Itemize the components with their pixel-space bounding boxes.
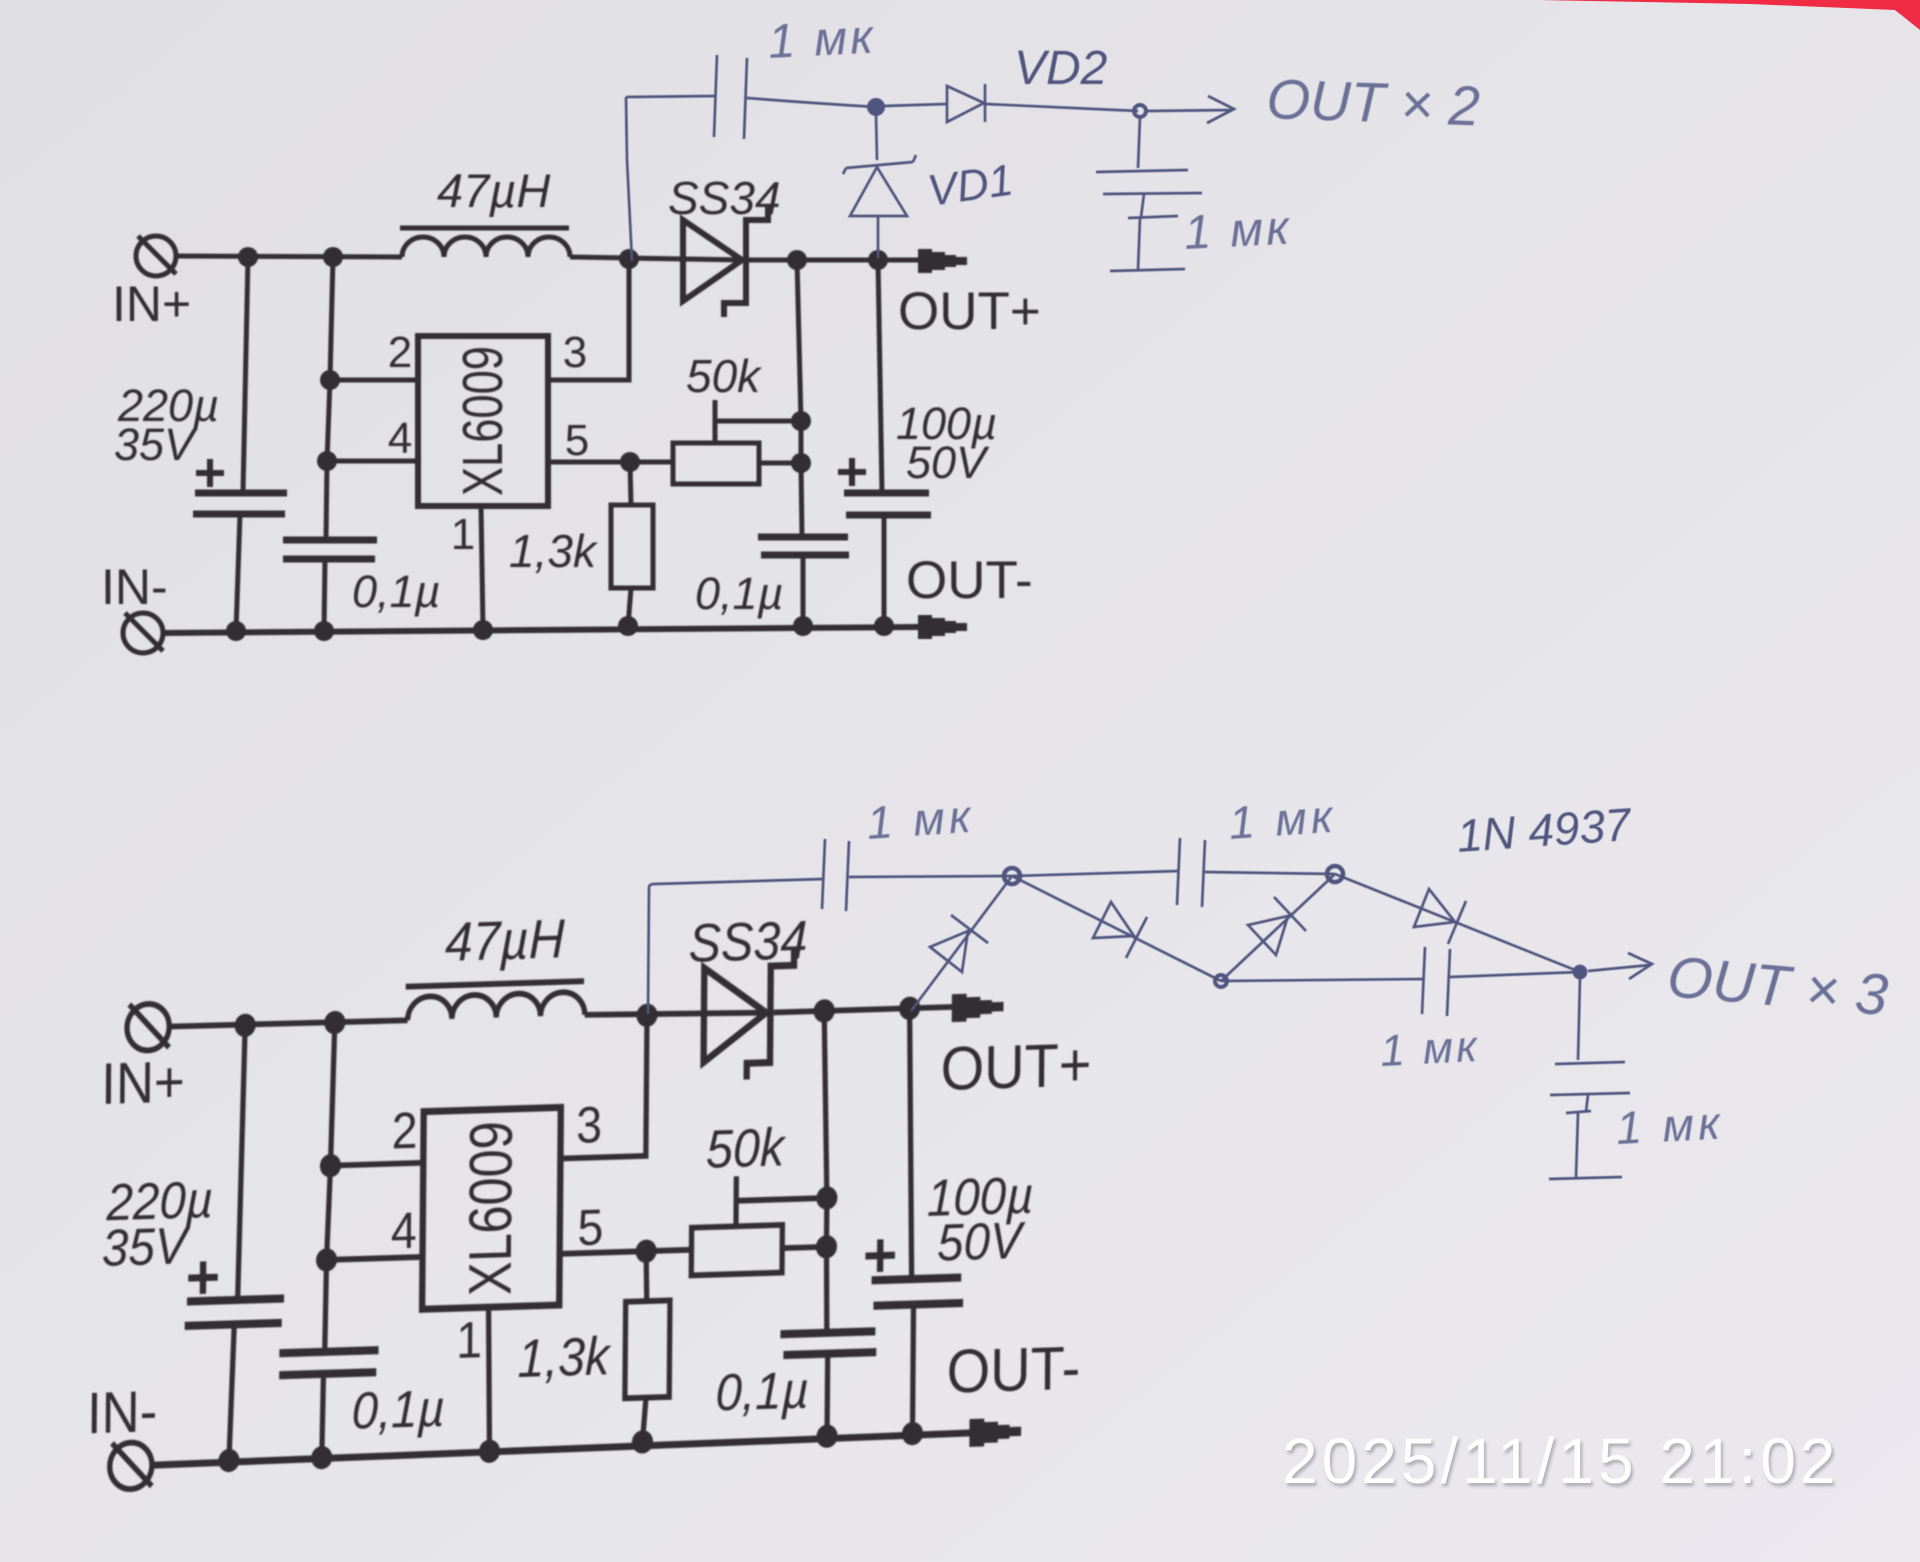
node pin5 junction (circuit 2): [635, 1239, 656, 1263]
arrow hand OUT x2: [1146, 96, 1234, 123]
node F OUT x3 (circuit 2): [1574, 966, 1586, 978]
red table edge top-right: [1538, 0, 1920, 30]
svg-text:1: 1: [451, 510, 475, 559]
node bottom rail 2 (circuit 1): [314, 621, 334, 641]
pin 4 wire (circuit 1): [327, 459, 418, 464]
resistor 1,3k (circuit 2): [625, 1300, 670, 1398]
wire diode cathode to OUT+ arrow (circuit 2): [774, 1007, 954, 1013]
wire inductor to diode anode (circuit 2): [585, 1009, 770, 1018]
node pin5 junction (circuit 1): [620, 452, 640, 472]
capacitor hand C-1мк filter B (circuit 2): [1549, 1095, 1622, 1179]
wire hand: node B down to C filter (circuit 1): [1138, 117, 1140, 168]
svg-text:1 мк: 1 мк: [1227, 790, 1338, 849]
printed circuit 2 (bottom): [86, 893, 1092, 1491]
svg-text:VD2: VD2: [1014, 42, 1107, 95]
node pin2 junction (circuit 1): [320, 370, 340, 390]
wire hand: C stage2 to node E (circuit 2): [1205, 872, 1335, 874]
svg-text:1 мк: 1 мк: [865, 790, 976, 849]
wire feedback rail node4 down to C-0,1µ out (circuit 1): [797, 260, 802, 537]
svg-text:2: 2: [391, 1103, 417, 1160]
svg-text:IN-: IN-: [87, 1379, 158, 1446]
svg-text:IN-: IN-: [101, 559, 168, 615]
inductor L 47µH (circuit 2): [405, 981, 585, 1020]
resistor 1,3k (circuit 1): [611, 505, 653, 588]
pin 2 wire (circuit 2): [330, 1163, 423, 1166]
pot wiper stub (circuit 2): [733, 1176, 738, 1226]
diode hand VD4 node C to node D: [1012, 876, 1221, 981]
svg-text:0,1µ: 0,1µ: [715, 1361, 809, 1423]
pin 3 wire (circuit 1): [548, 259, 629, 380]
wire C-0,1µ to bottom rail (circuit 2): [322, 1374, 324, 1458]
node bottom rail 5 (circuit 2): [816, 1424, 837, 1448]
node wiper junction (circuit 2): [816, 1186, 837, 1210]
wire R-1,3k to bottom rail (circuit 2): [642, 1398, 646, 1442]
resistor 50k potentiometer (circuit 2): [691, 1225, 782, 1275]
pot wiper stub (circuit 1): [713, 400, 718, 443]
wire C-100µ to bottom rail (circuit 2): [912, 1305, 913, 1434]
wire C-0,1µ out to bottom rail (circuit 1): [801, 555, 806, 626]
svg-text:OUT+: OUT+: [898, 282, 1041, 341]
wire node1 down to C-220µ (circuit 1): [243, 257, 248, 493]
node pin4 junction (circuit 1): [317, 451, 337, 471]
node top rail 2 (circuit 2): [324, 1011, 345, 1035]
svg-text:50V: 50V: [937, 1211, 1026, 1272]
wire top rail IN+ to inductor (circuit 1): [175, 256, 402, 257]
node pin2 junction (circuit 2): [320, 1154, 341, 1178]
inductor L 47µH (circuit 1): [400, 228, 570, 257]
wire node5 down to C-100µ (circuit 2): [907, 1008, 913, 1279]
node top rail 1 (circuit 1): [238, 247, 258, 267]
wire node1 down to C-220µ (circuit 2): [238, 1025, 246, 1300]
svg-text:IN+: IN+: [112, 276, 191, 332]
wire C-0,1µ out to bottom rail (circuit 2): [825, 1354, 831, 1437]
capacitor hand C-1мк filter A (circuit 1): [1096, 170, 1202, 194]
handwritten annotations circuit 2: [648, 790, 1890, 1179]
capacitor 220µ 35V (circuit 1): [193, 493, 287, 514]
svg-text:XL6009: XL6009: [451, 346, 515, 496]
capacitor 0,1µ input (circuit 1): [283, 540, 377, 559]
wire pin5 to R-50k (circuit 1): [630, 460, 673, 465]
terminal IN- (circuit 1): [123, 613, 163, 653]
svg-text:1: 1: [456, 1312, 482, 1369]
arrow OUT+ (circuit 2): [952, 993, 1004, 1022]
wire hand: C-1мк to node A (circuit 1): [747, 98, 876, 107]
plus sign of 100µ (circuit 2): [865, 1239, 895, 1272]
svg-text:0,1µ: 0,1µ: [351, 1379, 445, 1441]
node bottom rail 3 (circuit 2): [479, 1439, 500, 1463]
svg-text:4: 4: [391, 1203, 417, 1260]
wire hand: C stage1 to node C (circuit 2): [849, 876, 1012, 877]
node C (circuit 2): [1004, 868, 1020, 884]
node top rail 2 (circuit 1): [323, 247, 343, 267]
svg-text:0,1µ: 0,1µ: [695, 568, 783, 619]
svg-text:2025/11/15 21:02: 2025/11/15 21:02: [1282, 1425, 1840, 1497]
terminal IN+ (circuit 1): [136, 236, 176, 276]
svg-text:47µH: 47µH: [445, 909, 565, 973]
node top rail 1 (circuit 2): [235, 1013, 256, 1037]
node B (circuit 1): [1134, 105, 1146, 117]
svg-text:IN+: IN+: [101, 1049, 185, 1117]
svg-text:5: 5: [565, 416, 589, 465]
plus sign of 220µ (circuit 2): [188, 1261, 218, 1294]
node R50k-right junction (circuit 1): [791, 453, 811, 473]
capacitor 0,1µ output (circuit 1): [758, 537, 849, 555]
resistor 50k potentiometer (circuit 1): [673, 443, 759, 484]
wire top rail IN+ to inductor (circuit 2): [168, 1019, 407, 1028]
node bottom rail 6 (circuit 1): [874, 616, 894, 636]
wire C-220µ to bottom rail (circuit 1): [236, 514, 240, 631]
wire node5 down to C-100µ (circuit 1): [878, 260, 882, 493]
wire inductor to diode anode (circuit 1): [570, 257, 745, 260]
terminal IN+ (circuit 2): [127, 1003, 170, 1051]
wire hand: VD2 to node B (circuit 1): [986, 104, 1138, 111]
wire hand: node D to C stage3 (circuit 2): [1221, 979, 1424, 981]
wire hand: tap from switch node up (circuit 1): [626, 97, 632, 261]
diode VD2: [883, 104, 947, 106]
pin 2 wire (circuit 1): [330, 378, 418, 383]
pot wiper arm wire (circuit 2): [736, 1198, 827, 1201]
wire hand: C stage3 to node F (circuit 2): [1450, 972, 1580, 977]
diode hand VD3 from OUT+ to node C: [911, 876, 1012, 1011]
pin 1 wire (circuit 1): [481, 506, 483, 630]
wire hand: node C to C stage2 (circuit 2): [1012, 871, 1179, 876]
wire node2 down via pins 2,4 to C-0,1µ (circuit 1): [326, 257, 333, 540]
pin 5 wire (circuit 1): [548, 460, 630, 465]
svg-text:SS34: SS34: [688, 910, 807, 973]
node bottom rail 6 (circuit 2): [902, 1422, 923, 1446]
wire C-220µ to bottom rail (circuit 2): [229, 1324, 234, 1460]
op-amp/IC U XL6009 (circuit 1): [418, 336, 548, 506]
wire pin5 to R-50k (circuit 2): [646, 1250, 691, 1251]
arrow OUT+ (circuit 1): [918, 249, 967, 273]
svg-text:OUT × 2: OUT × 2: [1266, 67, 1481, 137]
node bottom rail 4 (circuit 2): [632, 1430, 653, 1454]
node top rail 3 (circuit 2): [636, 1003, 657, 1027]
capacitor 0,1µ output (circuit 2): [780, 1331, 876, 1355]
svg-text:35V: 35V: [114, 419, 198, 470]
handwritten annotations circuit 1: [626, 10, 1481, 271]
node top rail 5 (circuit 2): [899, 996, 920, 1020]
pot wiper arm wire (circuit 1): [715, 419, 801, 424]
node bottom rail 4 (circuit 1): [618, 616, 638, 636]
capacitor 220µ 35V (circuit 2): [185, 1298, 284, 1325]
svg-text:35V: 35V: [102, 1216, 191, 1277]
node R50k-right junction (circuit 2): [816, 1235, 837, 1259]
pin 4 wire (circuit 2): [327, 1257, 423, 1260]
plus sign of 100µ (circuit 1): [838, 458, 866, 486]
capacitor hand C-1мк coupling (circuit 1): [714, 55, 747, 139]
svg-text:1 мк: 1 мк: [1379, 1022, 1481, 1076]
node pin4 junction (circuit 2): [316, 1248, 337, 1272]
diode SS34 (circuit 2): [703, 949, 794, 1081]
wire pin5 junction down to R-1,3k (circuit 1): [630, 462, 631, 505]
svg-text:XL6009: XL6009: [458, 1120, 526, 1296]
terminal IN- (circuit 2): [110, 1442, 153, 1490]
svg-text:50k: 50k: [706, 1117, 787, 1179]
node bottom rail 1 (circuit 1): [226, 621, 246, 641]
capacitor hand C-1мк stage1 (circuit 2): [822, 839, 849, 911]
svg-text:OUT-: OUT-: [946, 1334, 1080, 1406]
wire R-1,3k to bottom rail (circuit 1): [628, 588, 631, 626]
wire bottom rail (circuit 1): [162, 627, 920, 633]
capacitor hand C-1мк filter B (circuit 1): [1110, 194, 1185, 271]
printed circuit 1 (top): [101, 164, 1041, 653]
capacitor 0,1µ input (circuit 2): [279, 1350, 378, 1375]
svg-text:47µH: 47µH: [437, 164, 550, 217]
wire hand: tap from switch node up (circuit 2): [648, 879, 824, 1014]
svg-text:1 мк: 1 мк: [1183, 201, 1293, 260]
svg-text:1,3k: 1,3k: [517, 1326, 612, 1389]
svg-text:SS34: SS34: [668, 172, 781, 224]
wire diode cathode to OUT+ arrow (circuit 1): [749, 258, 920, 263]
node bottom rail 5 (circuit 1): [793, 616, 813, 636]
svg-text:OUT-: OUT-: [906, 551, 1033, 610]
plus sign of 220µ (circuit 1): [196, 459, 224, 487]
capacitor hand C-1мк filter A (circuit 2): [1550, 1062, 1630, 1095]
wire pin5 junction down to R-1,3k (circuit 2): [646, 1251, 647, 1301]
svg-text:5: 5: [577, 1199, 603, 1256]
node bottom rail 1 (circuit 2): [218, 1449, 239, 1473]
arrow OUT- (circuit 1): [918, 615, 967, 639]
diode hand VD6 1N4937 node E to OUT x3: [1335, 874, 1580, 972]
node E (circuit 2): [1327, 866, 1343, 882]
wire hand: horizontal to C-1мк (circuit 1): [626, 96, 716, 97]
svg-text:OUT+: OUT+: [940, 1031, 1091, 1104]
svg-text:50k: 50k: [686, 350, 762, 402]
pin 5 wire (circuit 2): [560, 1251, 646, 1254]
capacitor hand C-1мк stage2 (circuit 2): [1177, 838, 1205, 907]
node D (circuit 2): [1215, 975, 1227, 987]
arrow OUT- (circuit 2): [969, 1417, 1021, 1446]
wire C-100µ to bottom rail (circuit 1): [882, 515, 887, 626]
node top rail 5 (circuit 1): [868, 250, 888, 270]
svg-text:1 мк: 1 мк: [767, 10, 877, 69]
svg-text:4: 4: [388, 414, 412, 463]
node top rail 3 (circuit 1): [619, 249, 639, 269]
arrow hand OUT x3: [1588, 953, 1652, 979]
capacitor 100µ 50V (circuit 2): [871, 1277, 963, 1305]
wire bottom rail (circuit 2): [151, 1433, 972, 1465]
node A (circuit 1): [869, 100, 883, 114]
node wiper junction (circuit 1): [791, 411, 811, 431]
svg-text:2: 2: [388, 328, 412, 377]
node bottom rail 3 (circuit 1): [473, 620, 493, 640]
diode SS34 (circuit 1): [683, 206, 768, 317]
node top rail 4 (circuit 1): [787, 250, 807, 270]
diode hand VD5 node D to node E: [1221, 874, 1335, 981]
svg-text:50V: 50V: [906, 437, 990, 488]
svg-text:3: 3: [576, 1097, 602, 1154]
svg-text:1,3k: 1,3k: [509, 525, 598, 577]
wire R-50k right to feedback rail (circuit 1): [759, 461, 801, 466]
diode VD1 zener: [876, 114, 877, 160]
svg-text:0,1µ: 0,1µ: [352, 566, 440, 617]
wire C-0,1µ to bottom rail (circuit 1): [324, 559, 325, 631]
capacitor hand C-1мк stage3 (circuit 2): [1422, 947, 1450, 1016]
svg-text:3: 3: [563, 328, 587, 377]
wire node2 down via pins 2,4 to C-0,1µ (circuit 2): [325, 1023, 335, 1352]
pin 3 wire (circuit 2): [560, 1015, 647, 1158]
wire R-50k right to feedback rail (circuit 2): [782, 1247, 826, 1248]
capacitor 100µ 50V (circuit 1): [844, 493, 931, 515]
op-amp/IC U XL6009 (circuit 2): [422, 1107, 561, 1309]
wire feedback rail node4 down to C-0,1µ out (circuit 2): [822, 1011, 830, 1333]
node bottom rail 2 (circuit 2): [311, 1446, 332, 1470]
wire hand: node F down to C filter (circuit 2): [1578, 978, 1580, 1060]
svg-text:1 мк: 1 мк: [1615, 1096, 1725, 1154]
pin 1 wire (circuit 2): [487, 1307, 490, 1451]
node top rail 4 (circuit 2): [814, 999, 835, 1023]
